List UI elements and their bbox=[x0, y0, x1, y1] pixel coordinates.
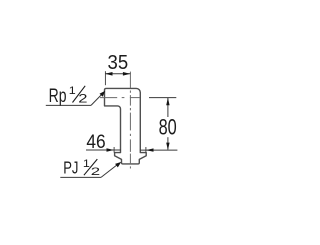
leader diagonal of Rp 1/2 bbox=[91, 94, 103, 106]
arrowhead 35 left bbox=[105, 72, 112, 76]
fraction slash of PJ 1/2 bbox=[84, 159, 97, 175]
arrowhead 80 down bbox=[166, 143, 169, 150]
leader underline of Rp 1/2 bbox=[46, 104, 91, 106]
dimension line 46 (leader with underline) bbox=[86, 149, 121, 151]
svg-text:1: 1 bbox=[69, 84, 76, 97]
extension line left of 35 bbox=[104, 71, 106, 85]
svg-text:2: 2 bbox=[91, 166, 101, 178]
vertical centerline of pipe bbox=[129, 72, 131, 169]
arrowhead 80 up bbox=[166, 98, 169, 105]
svg-text:2: 2 bbox=[78, 93, 87, 106]
extension tick flange left edge bbox=[113, 147, 115, 153]
fitting body outline bbox=[105, 88, 147, 163]
fraction slash of Rp 1/2 bbox=[73, 86, 86, 103]
leader arrowhead of Rp 1/2 (points to body corner) bbox=[100, 91, 106, 97]
leader arrowhead of PJ 1/2 (points to flange corner) bbox=[115, 162, 121, 168]
arrowhead 35 right bbox=[123, 72, 130, 76]
dimension line 80 upper segment bbox=[167, 98, 169, 117]
dimension line 35 bbox=[105, 73, 130, 75]
arrowhead 46 (points right) bbox=[107, 148, 114, 151]
svg-text:80: 80 bbox=[159, 116, 177, 140]
svg-text:46: 46 bbox=[86, 130, 105, 152]
leader diagonal of PJ 1/2 bbox=[101, 164, 118, 177]
dimension line 80 lower segment bbox=[167, 137, 169, 149]
arrowhead flange right (points left) bbox=[146, 148, 153, 151]
svg-text:1: 1 bbox=[83, 157, 90, 170]
svg-text:35: 35 bbox=[108, 51, 129, 74]
horizontal centerline of side port bbox=[100, 97, 140, 99]
extension tick flange right edge bbox=[145, 147, 147, 153]
svg-text:PJ: PJ bbox=[63, 159, 78, 178]
leader underline of PJ 1/2 bbox=[60, 176, 101, 178]
extension line top of 80 bbox=[149, 97, 176, 99]
svg-text:Rp: Rp bbox=[49, 85, 67, 107]
extension line bottom of 80 / flange right dimension line bbox=[140, 149, 178, 151]
